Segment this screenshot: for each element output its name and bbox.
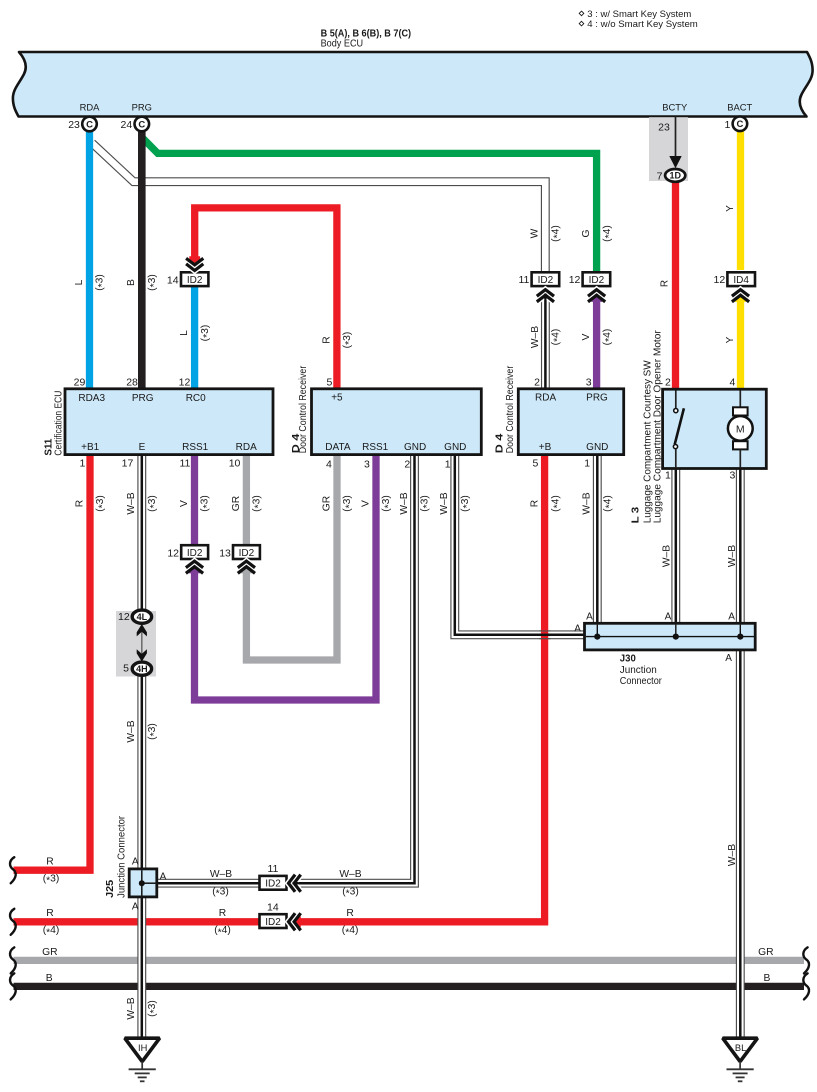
- svg-text:Connector: Connector: [620, 676, 663, 687]
- svg-text:2: 2: [665, 377, 671, 389]
- svg-text:ID2: ID2: [265, 879, 281, 890]
- svg-text:R: R: [219, 908, 226, 919]
- svg-text:W–B: W–B: [582, 492, 593, 514]
- svg-text:W: W: [530, 228, 541, 238]
- svg-text:RDA3: RDA3: [78, 393, 105, 404]
- svg-text:7: 7: [657, 170, 663, 182]
- svg-text:Body ECU: Body ECU: [321, 37, 364, 49]
- svg-text:ID2: ID2: [265, 917, 281, 928]
- svg-text:ID2: ID2: [239, 548, 255, 559]
- svg-text:Door Control Receiver: Door Control Receiver: [505, 365, 516, 453]
- svg-text:RSS1: RSS1: [362, 442, 389, 453]
- svg-text:A: A: [728, 611, 735, 622]
- svg-text:Junction: Junction: [620, 665, 657, 676]
- svg-text:4L: 4L: [137, 612, 148, 622]
- svg-text:2: 2: [534, 377, 540, 389]
- svg-text:12: 12: [569, 274, 581, 286]
- svg-text:BCTY: BCTY: [662, 102, 688, 113]
- svg-text:3 : w/ Smart Key System: 3 : w/ Smart Key System: [587, 9, 691, 19]
- svg-text:IH: IH: [138, 1043, 147, 1053]
- svg-text:PRG: PRG: [586, 393, 608, 404]
- svg-text:W–B: W–B: [530, 326, 541, 348]
- svg-text:Luggage Compartment Door Opene: Luggage Compartment Door Opener Motor: [653, 330, 664, 524]
- svg-text:5: 5: [326, 377, 332, 389]
- svg-text:3: 3: [364, 458, 370, 470]
- svg-text:BACT: BACT: [727, 102, 752, 113]
- svg-text:ID2: ID2: [187, 548, 203, 559]
- svg-text:1: 1: [665, 470, 671, 482]
- svg-text:V: V: [179, 500, 190, 507]
- svg-text:1: 1: [445, 458, 451, 470]
- svg-text:4: 4: [729, 377, 735, 389]
- svg-text:W–B: W–B: [399, 492, 410, 514]
- svg-text:23: 23: [658, 121, 670, 133]
- svg-text:L: L: [179, 330, 190, 336]
- svg-text:17: 17: [122, 458, 134, 470]
- svg-text:5: 5: [123, 663, 129, 675]
- svg-text:D 4: D 4: [494, 434, 506, 454]
- svg-text:W–B: W–B: [126, 720, 137, 742]
- svg-text:12: 12: [118, 611, 130, 623]
- svg-text:1: 1: [724, 119, 730, 131]
- svg-text:G: G: [581, 229, 592, 237]
- svg-text:W–B: W–B: [210, 869, 232, 880]
- svg-text:GR: GR: [321, 496, 332, 511]
- svg-text:RDA: RDA: [535, 393, 556, 404]
- svg-text:W–B: W–B: [662, 545, 673, 567]
- svg-text:ID2: ID2: [538, 275, 554, 286]
- svg-text:R: R: [74, 500, 85, 507]
- svg-text:11: 11: [518, 274, 529, 286]
- svg-text:A: A: [132, 857, 139, 868]
- svg-text:L 3: L 3: [630, 507, 642, 524]
- svg-text:W–B: W–B: [439, 492, 450, 514]
- svg-text:R: R: [346, 908, 353, 919]
- svg-text:ID2: ID2: [187, 275, 203, 286]
- svg-text:J30: J30: [620, 653, 636, 665]
- svg-text:12: 12: [714, 274, 726, 286]
- svg-text:R: R: [46, 908, 53, 919]
- svg-text:5: 5: [532, 458, 538, 470]
- svg-text:14: 14: [167, 274, 179, 286]
- svg-text:C: C: [138, 119, 145, 130]
- svg-text:W–B: W–B: [339, 869, 361, 880]
- svg-text:BL: BL: [735, 1043, 746, 1053]
- svg-text:ID2: ID2: [589, 275, 605, 286]
- svg-text:RDA: RDA: [236, 442, 257, 453]
- svg-text:Certification ECU: Certification ECU: [53, 391, 64, 456]
- svg-text:28: 28: [126, 377, 138, 389]
- svg-text:12: 12: [167, 547, 179, 559]
- svg-text:Y: Y: [725, 336, 736, 343]
- svg-text:RC0: RC0: [186, 393, 206, 404]
- svg-text:4H: 4H: [136, 664, 148, 674]
- svg-text:GR: GR: [758, 947, 773, 958]
- svg-text:1D: 1D: [669, 171, 681, 181]
- svg-text:12: 12: [179, 377, 191, 389]
- svg-text:V: V: [581, 333, 592, 340]
- svg-text:RSS1: RSS1: [182, 442, 209, 453]
- svg-text:R: R: [530, 500, 541, 507]
- svg-text:3: 3: [730, 470, 736, 482]
- svg-text:A: A: [574, 624, 581, 635]
- svg-text:1: 1: [80, 458, 86, 470]
- svg-text:GND: GND: [404, 442, 426, 453]
- svg-text:11: 11: [179, 458, 190, 470]
- svg-text:B: B: [763, 973, 770, 984]
- svg-text:+5: +5: [331, 393, 343, 404]
- svg-text:A: A: [725, 653, 732, 664]
- svg-text:R: R: [321, 336, 332, 343]
- svg-text:Junction Connector: Junction Connector: [117, 815, 128, 898]
- svg-text:W–B: W–B: [727, 545, 738, 567]
- svg-text:1: 1: [584, 458, 590, 470]
- svg-text:4 : w/o Smart Key System: 4 : w/o Smart Key System: [587, 19, 698, 29]
- svg-text:10: 10: [229, 458, 241, 470]
- svg-text:4: 4: [326, 458, 332, 470]
- svg-text:2: 2: [404, 458, 410, 470]
- svg-text:+B: +B: [539, 442, 552, 453]
- svg-text:V: V: [360, 500, 371, 507]
- svg-text:C: C: [736, 119, 743, 130]
- svg-text:W–B: W–B: [126, 997, 137, 1019]
- svg-text:W–B: W–B: [727, 844, 738, 866]
- svg-text:A: A: [665, 611, 672, 622]
- svg-text:Y: Y: [725, 205, 736, 212]
- svg-text:13: 13: [219, 547, 231, 559]
- svg-text:L: L: [74, 279, 85, 285]
- svg-text:PRG: PRG: [132, 393, 154, 404]
- svg-text:14: 14: [267, 901, 279, 913]
- svg-text:RDA: RDA: [80, 102, 101, 113]
- svg-text:GND: GND: [444, 442, 466, 453]
- svg-text:E: E: [139, 442, 146, 453]
- svg-text:DATA: DATA: [325, 442, 351, 453]
- svg-text:11: 11: [267, 863, 278, 875]
- svg-text:R: R: [660, 280, 671, 287]
- svg-text:A: A: [586, 611, 593, 622]
- svg-text:A: A: [132, 902, 139, 913]
- svg-text:24: 24: [121, 119, 133, 131]
- svg-text:B: B: [126, 279, 137, 286]
- svg-text:B: B: [46, 973, 53, 984]
- svg-text:GR: GR: [231, 496, 242, 511]
- svg-text:A: A: [160, 871, 167, 882]
- svg-text:J25: J25: [104, 880, 116, 898]
- svg-text:GND: GND: [586, 442, 608, 453]
- svg-text:GR: GR: [42, 947, 57, 958]
- svg-text:W–B: W–B: [126, 492, 137, 514]
- svg-text:ID4: ID4: [733, 275, 749, 286]
- svg-text:R: R: [46, 856, 53, 867]
- svg-text:Door Control Receiver: Door Control Receiver: [298, 365, 309, 453]
- svg-text:M: M: [736, 423, 745, 435]
- svg-text:3: 3: [586, 377, 592, 389]
- svg-text:C: C: [86, 119, 93, 130]
- svg-text:+B1: +B1: [81, 442, 100, 453]
- svg-text:23: 23: [68, 119, 80, 131]
- svg-text:PRG: PRG: [132, 102, 152, 113]
- svg-text:29: 29: [74, 377, 86, 389]
